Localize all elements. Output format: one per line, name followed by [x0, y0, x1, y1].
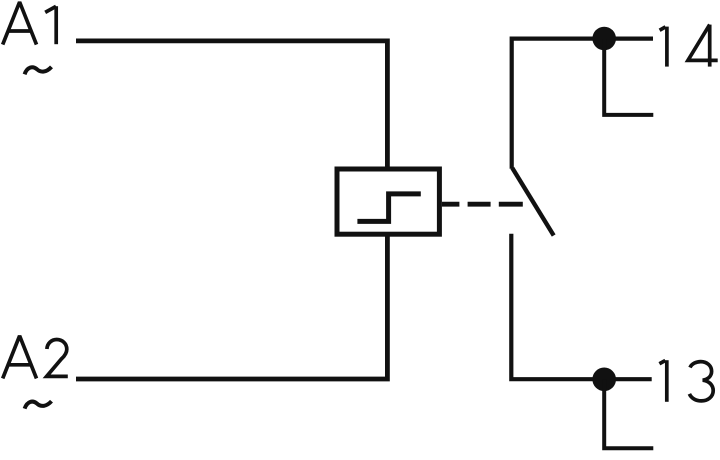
contact fixed terminal wire to node 13 — [511, 234, 651, 379]
wire node 14 to contact pivot — [512, 39, 653, 169]
terminal label 14 — [660, 25, 718, 67]
mechanical link (dashed) coil to contact — [442, 202, 523, 207]
coil latching/step symbol — [357, 194, 420, 222]
AC symbol ~ below A2 — [25, 401, 52, 408]
terminal label 13 — [659, 360, 713, 402]
wire coil to A2 (vertical + horizontal) — [76, 234, 387, 379]
node 13 junction dot — [592, 368, 616, 392]
wire stub below node 14 — [604, 39, 653, 115]
AC symbol ~ below A1 — [25, 67, 52, 74]
wire stub below node 13 — [604, 379, 653, 448]
wire A1 to coil (horizontal + vertical) — [76, 41, 387, 170]
contact blade (NO, shown open) — [512, 168, 553, 236]
terminal label A1 — [3, 2, 57, 45]
node 14 junction dot — [592, 27, 616, 51]
terminal label A2 — [3, 336, 68, 379]
relay coil box — [337, 169, 439, 234]
